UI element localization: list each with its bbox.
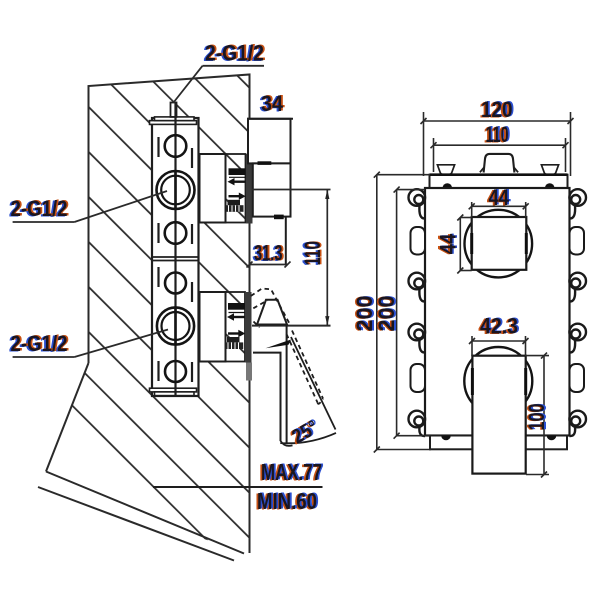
svg-text:120: 120 — [481, 97, 513, 122]
top plate — [430, 175, 568, 188]
label 200 inner vertical — [372, 295, 401, 332]
body bottom cap — [150, 388, 197, 392]
upper wall plate dark bar — [246, 154, 253, 224]
svg-text:110: 110 — [486, 122, 509, 147]
top plate screws — [443, 183, 453, 188]
svg-text:34: 34 — [261, 91, 283, 116]
main port circle large 1 — [157, 171, 195, 209]
svg-text:MAX.77: MAX.77 — [261, 459, 322, 485]
dim 200 outer — [374, 172, 431, 453]
label 120 — [479, 97, 514, 123]
label 2-G1/2 left upper — [9, 196, 70, 222]
upper cartridge housing — [200, 154, 226, 223]
trim step edge — [285, 217, 287, 265]
dimension 110 line (left view) — [326, 190, 328, 326]
svg-text:44: 44 — [489, 185, 510, 210]
svg-text:31.3: 31.3 — [254, 241, 283, 266]
svg-text:110: 110 — [300, 241, 325, 265]
MAX/MIN fraction line — [153, 486, 323, 488]
label 2-G1/2 left lower — [9, 331, 70, 357]
dim 42.3 — [469, 336, 529, 356]
dimension 31.3 line — [250, 264, 288, 266]
label MAX.77 — [259, 459, 324, 486]
side ears right — [569, 189, 586, 436]
top plate tabs — [437, 165, 454, 175]
leader top G1/2 — [203, 65, 265, 67]
svg-text:100: 100 — [524, 404, 549, 431]
side bumps left — [411, 227, 426, 255]
main port circle large 2 — [157, 307, 194, 344]
body top cap — [150, 121, 197, 125]
mounting box — [425, 188, 570, 436]
side bumps right — [570, 227, 585, 255]
body separator joint — [152, 256, 199, 258]
svg-text:MIN.60: MIN.60 — [257, 488, 317, 514]
dim 120 — [421, 112, 574, 176]
plaster guard knob — [484, 154, 515, 173]
lower wall plate dark bar — [245, 292, 252, 363]
label 100 vertical — [522, 403, 551, 431]
handle step outline — [253, 353, 281, 441]
port ticks small 2 — [157, 223, 159, 243]
label 200 outer vertical — [350, 295, 379, 332]
label 110 vertical left view — [298, 241, 327, 266]
body centerline — [174, 103, 176, 396]
trim escutcheon outer (side) — [248, 119, 291, 164]
trim sleeve (side) — [253, 163, 291, 216]
svg-text:42.3: 42.3 — [480, 314, 518, 339]
dashed handle base — [251, 289, 290, 328]
upper trim circle — [465, 210, 533, 278]
dim 44 top — [469, 202, 529, 217]
dim 110 — [431, 138, 569, 172]
dim 44 left — [457, 215, 471, 274]
port circle small 1 — [165, 135, 187, 157]
leader left G1/2 upper — [13, 221, 75, 223]
cartridge square 44 — [472, 217, 527, 270]
handle base cone (side) — [257, 300, 287, 325]
dashed handle lever 25deg — [287, 331, 324, 404]
label MIN.60 — [255, 488, 319, 515]
wall outline — [38, 75, 250, 561]
port ticks small 4 — [157, 361, 159, 381]
bottom plate screws — [441, 436, 451, 441]
side ears left — [409, 189, 426, 436]
svg-text:2-G1/2: 2-G1/2 — [11, 331, 68, 356]
port ticks small 1 — [157, 137, 159, 157]
label 44 top — [487, 185, 511, 211]
handle front rect — [472, 356, 525, 474]
label 31.3 — [252, 240, 284, 266]
leader left G1/2 lower — [13, 356, 75, 358]
label 42.3 — [478, 313, 520, 339]
svg-text:2-G1/2: 2-G1/2 — [205, 41, 264, 66]
inlet stub — [171, 103, 177, 117]
handle indicator wedge — [266, 340, 292, 349]
lower cartridge housing — [200, 292, 226, 362]
dimension 34 line — [247, 118, 293, 120]
dim 100 — [526, 353, 549, 478]
label 110 right view — [484, 122, 511, 148]
label 34 — [259, 91, 285, 117]
upper cartridge mechanism — [226, 168, 246, 212]
dimension 110 extension lines — [252, 189, 331, 191]
lower trim circle — [464, 347, 532, 415]
label 44 left vertical — [434, 233, 463, 254]
svg-text:44: 44 — [435, 233, 460, 254]
port circle small 4 — [165, 361, 186, 382]
svg-text:2-G1/2: 2-G1/2 — [11, 196, 68, 221]
handle swing edge 25deg — [291, 337, 336, 430]
port circle small 3 — [165, 273, 186, 294]
label 2-G1/2 top — [203, 40, 266, 66]
valve body — [150, 103, 199, 397]
port circle small 2 — [165, 222, 187, 244]
dim 200 inner — [394, 187, 430, 439]
bottom plate — [430, 436, 567, 450]
lower cartridge mechanism — [226, 303, 246, 349]
handle swing arc — [280, 433, 336, 443]
svg-text:200: 200 — [374, 296, 399, 332]
port ticks small 3 — [157, 267, 159, 287]
label 25deg — [287, 415, 324, 449]
handle lever vertical — [286, 326, 288, 444]
